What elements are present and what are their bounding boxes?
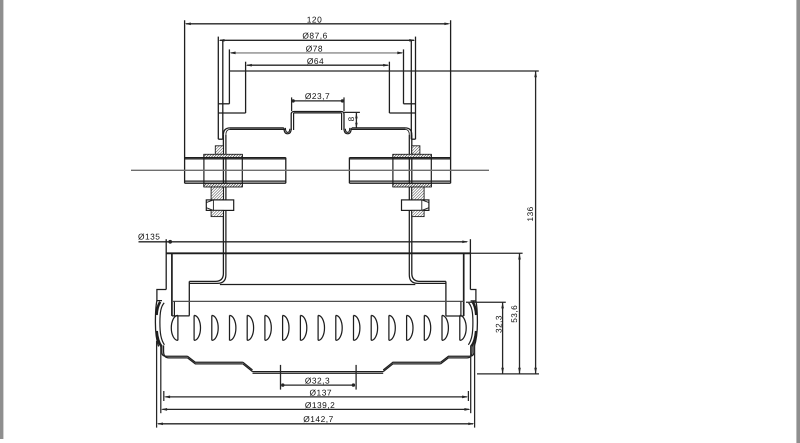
ext line 32.3	[466, 301, 506, 303]
dim 120 right arrow	[444, 22, 450, 25]
boss tick right	[355, 365, 357, 390]
stack right outer edge (120 ext)	[450, 20, 452, 183]
outer tab right	[470, 290, 476, 301]
dim 53.6 line	[519, 253, 521, 374]
shelf corner left outer	[223, 128, 229, 135]
sleeve left edge2	[241, 154, 243, 187]
sleeve top band right	[393, 154, 431, 157]
spacer block2 right	[412, 210, 424, 216]
svg-text:120: 120	[307, 15, 322, 25]
stack inner edge right	[348, 158, 350, 184]
ext D137 left	[163, 391, 165, 401]
stack bottom line1 right	[349, 180, 450, 182]
latch tab left inner edge	[173, 302, 175, 316]
cover wall left inner	[171, 253, 173, 316]
can step D78 left	[228, 49, 230, 103]
case bottom center line2	[253, 372, 384, 374]
svg-text:136: 136	[526, 206, 535, 221]
dim D23.7 right dot	[341, 99, 344, 102]
sleeve bottom band left	[204, 183, 242, 187]
stack top line1 left	[185, 157, 286, 159]
case bottom step2 left	[243, 362, 253, 370]
brush block left	[215, 146, 223, 155]
svg-text:Ø142,7: Ø142,7	[303, 414, 333, 424]
cover wall left outer	[165, 239, 167, 289]
dim D78 line	[231, 52, 402, 54]
case wall right below bulge inner	[467, 345, 472, 358]
dim 136 bottom arrow	[534, 368, 537, 374]
sleeve top band left	[204, 154, 242, 157]
flange end left vertical	[188, 281, 190, 315]
ext D142.7 left	[156, 341, 158, 428]
stud right inner line	[409, 135, 446, 284]
can step D64 right	[388, 62, 390, 113]
dim D142.7 right arrow	[468, 422, 474, 425]
stud left inner line	[189, 135, 226, 284]
spacer block2 left	[211, 210, 223, 216]
ext line 53.6	[470, 252, 522, 254]
hat top inner	[294, 112, 342, 114]
shelf bottom left	[230, 128, 286, 130]
svg-text:Ø64: Ø64	[307, 56, 324, 66]
latch tab right bottom	[446, 315, 464, 317]
can wall bottom cap left	[218, 138, 223, 140]
dim D64 right arrow	[383, 64, 389, 67]
case bottom step2 right outer	[383, 362, 440, 370]
stack top line2 right	[349, 158, 450, 160]
dim D137 left arrow	[164, 396, 170, 399]
cover wall right inner	[463, 253, 465, 316]
dim D87.6 right arrow	[409, 39, 415, 42]
brush block right	[412, 146, 420, 155]
dim D64 left arrow	[246, 64, 252, 67]
stack bottom line2 left	[185, 182, 286, 184]
svg-text:Ø87,6: Ø87,6	[302, 31, 327, 41]
sleeve bottom band right	[393, 183, 431, 187]
dim D87.6 left arrow	[218, 39, 224, 42]
dim D135 right arrow	[462, 240, 468, 243]
outer tab left	[157, 290, 166, 301]
case wall right below bulge outer	[469, 345, 474, 356]
ext D139.2 right	[470, 346, 472, 414]
stud right outer line	[412, 135, 446, 282]
dim D64 line	[247, 64, 388, 66]
svg-text:53,6: 53,6	[510, 305, 519, 323]
bulge left crimp bottom	[157, 331, 162, 346]
svg-text:Ø23,7: Ø23,7	[305, 91, 330, 101]
dim 136 top arrow	[534, 71, 537, 77]
dim 32.3 bottom arrow	[501, 368, 504, 374]
latch tab right inner edge	[460, 302, 462, 317]
svg-text:32,3: 32,3	[495, 315, 504, 333]
can step face2 right	[389, 112, 415, 114]
latch tab left bottom	[172, 315, 190, 317]
case wall left below bulge inner	[164, 345, 188, 358]
case wall left below bulge outer	[162, 345, 188, 356]
hat wall right inner	[341, 113, 343, 130]
dim D139.2 right arrow	[464, 408, 470, 411]
nut right chamfer top	[422, 200, 429, 203]
ext line bottom right	[477, 373, 539, 375]
ext D137 right	[467, 391, 469, 401]
stack top line2 left	[185, 158, 286, 160]
dim D32.3 line	[282, 384, 353, 386]
bulge right inner	[468, 303, 473, 345]
dim D23.7 ext left	[291, 97, 293, 111]
stack top line1 right	[349, 157, 450, 159]
svg-text:Ø135: Ø135	[138, 232, 161, 242]
case bottom step1 left inner	[188, 358, 243, 364]
sleeve right edge	[392, 154, 394, 187]
hat base dip right inner	[345, 128, 349, 132]
dim D78 left arrow	[229, 52, 235, 55]
stack inner edge left	[285, 158, 287, 184]
dim D142.7 line	[158, 423, 473, 425]
can inner wall left	[222, 40, 224, 139]
dim 136 line	[535, 71, 537, 374]
bulge right outer	[474, 301, 477, 347]
hat base dip left inner	[285, 128, 289, 132]
dim 8 line	[355, 113, 357, 129]
dim D142.7 left arrow	[157, 422, 163, 425]
svg-text:Ø32,3: Ø32,3	[305, 376, 330, 386]
case bottom step2 left inner	[243, 364, 253, 372]
boss tick left	[280, 365, 282, 390]
dim D139.2 left arrow	[161, 408, 167, 411]
fan vents row	[171, 315, 178, 340]
hat wall left inner	[293, 113, 295, 130]
svg-text:Ø139,2: Ø139,2	[305, 400, 335, 410]
spacer block left	[211, 187, 223, 200]
can outer wall left	[217, 37, 219, 140]
stud left outer line	[189, 135, 223, 282]
sleeve left edge	[203, 154, 205, 187]
stack bottom line2 right	[349, 182, 450, 184]
left page edge strip	[0, 0, 3, 439]
dim D32.3 right dot	[352, 383, 355, 386]
skirt bottom line	[220, 284, 415, 286]
ext line 136 top	[229, 70, 538, 72]
bulge right crimp top	[473, 302, 477, 315]
bulge right crimp bottom	[471, 331, 476, 346]
can step face left	[218, 103, 229, 105]
dim 32.3 line	[502, 302, 504, 374]
nut left body	[206, 200, 233, 211]
dim 32.3 top arrow	[501, 302, 504, 308]
svg-text:8: 8	[347, 116, 356, 121]
dim D32.3 left dot	[281, 383, 284, 386]
dim 8 ext line	[344, 111, 360, 113]
can step D64 left	[245, 62, 247, 113]
dim D139.2 line	[162, 408, 469, 410]
nut right face line	[421, 200, 423, 211]
centerline	[131, 169, 489, 171]
bulge left crimp top	[157, 302, 161, 315]
nut left chamfer bottom	[206, 208, 213, 211]
ext D139.2 left	[160, 346, 162, 414]
case bottom step1 right	[441, 356, 470, 362]
dim 120 left arrow	[185, 22, 191, 25]
cover wall right outer	[469, 239, 471, 289]
sleeve right edge2	[430, 154, 432, 187]
case bottom step1 right inner	[441, 358, 467, 364]
can step face right	[404, 103, 416, 105]
right page edge strip	[796, 0, 800, 443]
dim D78 right arrow	[397, 52, 403, 55]
ext D142.7 right	[474, 341, 476, 428]
case bottom center line1	[253, 371, 384, 373]
can wall bottom cap right	[411, 138, 415, 140]
dim 53.6 bottom arrow	[518, 368, 521, 374]
dim D135 line	[139, 241, 467, 243]
stack bottom line1 left	[185, 180, 286, 182]
flange end right vertical	[445, 281, 447, 316]
shelf corner right inner	[406, 129, 410, 134]
nut left face line	[212, 200, 214, 211]
dim D23.7 left dot	[292, 99, 295, 102]
dim 53.6 top arrow	[518, 253, 521, 259]
can step D78 right	[403, 49, 405, 103]
shelf corner right outer	[406, 128, 412, 135]
bulge left inner	[160, 303, 165, 345]
vent band top line	[172, 300, 464, 302]
dim D23.7 line	[293, 100, 343, 102]
shelf bottom right	[350, 128, 405, 130]
dim D137 line	[166, 396, 467, 398]
stack left outer edge (120 ext)	[184, 20, 186, 183]
dim 8 bottom arrow	[355, 123, 358, 129]
hat outer profile	[291, 112, 344, 131]
nut right chamfer bottom	[422, 208, 429, 211]
can inner wall right	[410, 40, 412, 139]
cover top plate	[166, 252, 470, 254]
shelf corner left inner	[226, 129, 230, 134]
hat base dip left	[284, 128, 291, 134]
case bottom step1 left	[188, 356, 243, 362]
shelf top left	[230, 127, 284, 129]
can step face2 left	[218, 112, 245, 114]
bulge left outer	[155, 301, 158, 347]
spacer block right	[412, 187, 424, 200]
dim 120 line	[186, 23, 448, 25]
can outer wall right	[415, 37, 417, 140]
hat base dip right	[344, 128, 351, 134]
svg-text:Ø137: Ø137	[310, 388, 333, 398]
case bottom step2 right	[383, 364, 440, 372]
nut left chamfer top	[206, 200, 213, 203]
dim D135 left dot	[168, 240, 172, 244]
nut right body	[402, 200, 429, 211]
dim 8 top arrow	[355, 113, 358, 119]
dim D87.6 line	[220, 39, 414, 41]
svg-text:Ø78: Ø78	[306, 43, 323, 53]
shelf top right	[352, 127, 406, 129]
dim D137 right arrow	[462, 396, 468, 399]
dim D23.7 ext right	[343, 97, 345, 111]
